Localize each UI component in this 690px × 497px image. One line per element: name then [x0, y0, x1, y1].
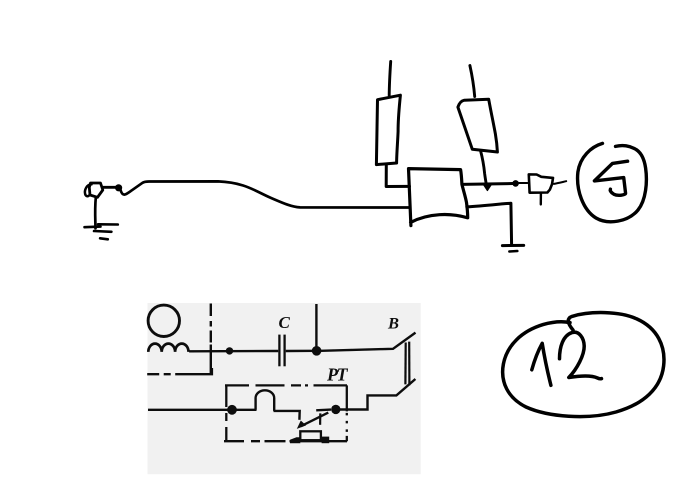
- wire R1 bottom to block: [386, 165, 409, 187]
- earpiece tail: [540, 193, 543, 204]
- resistor R2: [458, 99, 498, 152]
- wire block lower output: [467, 203, 512, 245]
- relay PT frame left: [225, 385, 227, 441]
- blade tick: [319, 413, 321, 424]
- node dot input: [115, 184, 122, 191]
- heater right foot: [322, 437, 330, 444]
- switch B contact line 1: [404, 343, 407, 385]
- digit 5: [594, 161, 627, 195]
- annotation circle 12: [503, 313, 664, 417]
- inductor L: [148, 344, 188, 352]
- heater left foot: [290, 437, 300, 443]
- wire long input run: [121, 181, 410, 207]
- svg-text:C: C: [279, 313, 291, 332]
- wire D3 to bump: [232, 409, 257, 411]
- switch B contact line 2: [408, 342, 410, 386]
- digit 2: [560, 332, 602, 379]
- wire R2 bottom: [481, 151, 487, 185]
- amplifier block A1: [409, 169, 468, 226]
- junction dot D1: [226, 347, 233, 354]
- svg-text:PT: PT: [326, 365, 348, 385]
- microphone M1 body: [89, 183, 103, 197]
- wire D2 to switch: [321, 333, 416, 351]
- lower main wire: [148, 409, 232, 411]
- vertical wire from D2: [315, 304, 317, 351]
- wire capacitor to D2: [286, 350, 317, 353]
- dash-dot frame vertical: [210, 304, 212, 374]
- junction dot D4: [331, 405, 340, 414]
- wire mic to node: [103, 186, 117, 189]
- wire R1 top: [389, 62, 391, 96]
- microphone stem wire: [94, 198, 97, 229]
- annotation circle 5: [578, 143, 647, 221]
- relay PT frame top: [225, 384, 347, 386]
- earpiece B1: [529, 174, 553, 192]
- relay bump: [256, 390, 275, 411]
- junction dot D3: [227, 405, 237, 415]
- svg-text:B: B: [387, 316, 399, 333]
- wire D4 to switch lower: [336, 379, 416, 410]
- relay PT frame bottom: [224, 440, 347, 442]
- arrow junction: [483, 184, 491, 190]
- microphone M1 curl: [85, 184, 92, 196]
- wire block output: [462, 182, 513, 186]
- node dot output: [512, 180, 519, 187]
- wire earpiece right: [554, 181, 566, 184]
- digit 1: [532, 343, 551, 385]
- capacitor C left plate: [278, 335, 280, 367]
- ground dash: [509, 250, 517, 253]
- wire coil to capacitor: [189, 350, 278, 353]
- wire R2 top: [470, 66, 475, 97]
- heater element box: [300, 431, 321, 440]
- dash-dot frame bottom: [147, 368, 212, 374]
- ground (output): [502, 244, 523, 247]
- relay PT frame right: [346, 385, 348, 441]
- printed schematic panel: [148, 303, 421, 474]
- capacitor C right plate: [283, 335, 285, 367]
- generator G circle: [148, 305, 179, 336]
- wire bump to post: [274, 411, 300, 420]
- resistor R1: [376, 95, 400, 164]
- junction dot D2: [312, 346, 322, 356]
- ground (mic): [85, 224, 118, 239]
- contact arrowhead: [298, 421, 306, 428]
- wire to earpiece: [519, 182, 528, 184]
- contact blade: [301, 413, 328, 427]
- fixed contact stub: [316, 408, 331, 411]
